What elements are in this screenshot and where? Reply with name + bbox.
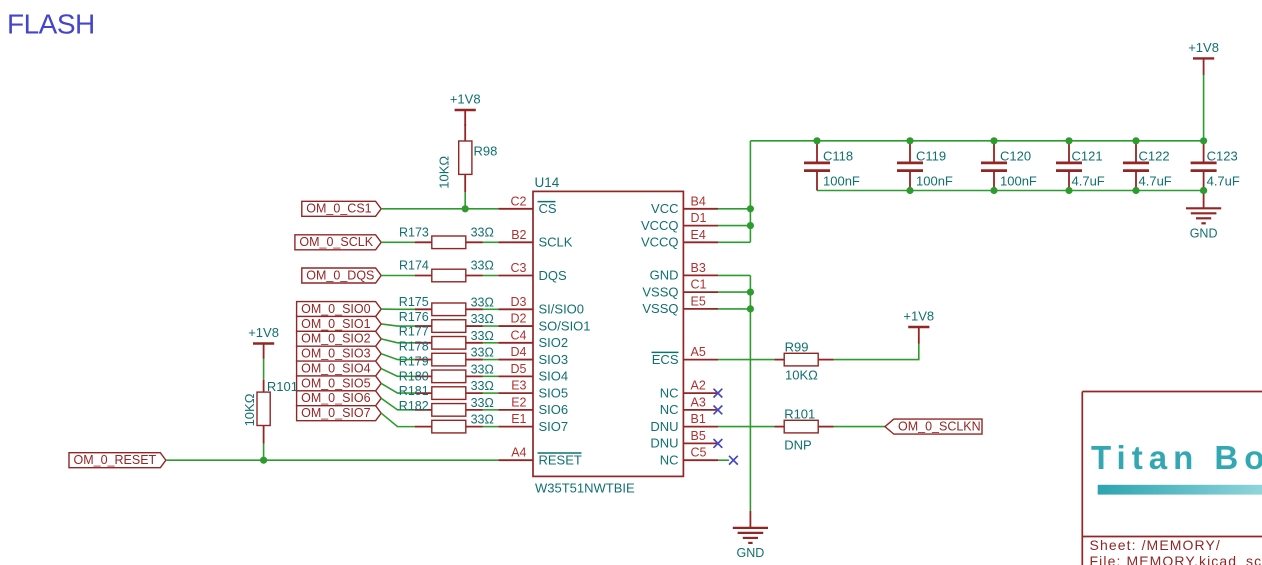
svg-text:OM_0_SIO6: OM_0_SIO6 — [301, 391, 371, 405]
svg-text:33Ω: 33Ω — [471, 396, 494, 410]
junction C118 top — [813, 137, 820, 144]
wire R181 to IC — [483, 409, 499, 411]
svg-text:RESET: RESET — [539, 453, 582, 468]
svg-text:OM_0_SIO0: OM_0_SIO0 — [301, 302, 371, 316]
wire OM_0_SIO3 to R178 — [381, 354, 415, 360]
svg-text:SIO6: SIO6 — [539, 402, 569, 417]
svg-text:C122: C122 — [1139, 148, 1170, 163]
junction VCC B4 — [747, 205, 754, 212]
svg-text:OM_0_SIO3: OM_0_SIO3 — [301, 347, 371, 361]
wire R98 lead to node — [464, 174, 466, 208]
svg-text:GND: GND — [737, 546, 765, 560]
wire GND vertical rail — [749, 275, 751, 511]
svg-text:R101: R101 — [267, 379, 298, 394]
svg-text:R180: R180 — [399, 369, 429, 383]
svg-text:33Ω: 33Ω — [471, 362, 494, 376]
net label OM_0_SIO1 — [297, 316, 382, 331]
capacitor C120 — [981, 141, 1037, 191]
capacitor C121 — [1056, 141, 1105, 191]
resistor R101 pull-up — [242, 379, 298, 444]
power +1V8 (ECS pull-up) — [903, 309, 934, 344]
svg-text:Titan Boards: Titan Boards — [1091, 439, 1262, 476]
svg-text:GND: GND — [650, 268, 679, 283]
wire R174 to IC — [483, 275, 499, 277]
pin D4 SIO3 — [498, 345, 568, 367]
junction C121 bottom — [1065, 187, 1072, 194]
svg-text:4.7uF: 4.7uF — [1072, 173, 1105, 188]
capacitor C118 — [804, 141, 860, 191]
no-connect pin C5 — [729, 456, 738, 465]
junction VCC D1 — [747, 222, 754, 229]
svg-text:C120: C120 — [1000, 148, 1031, 163]
svg-text:VCCQ: VCCQ — [641, 218, 679, 233]
svg-text:SIO2: SIO2 — [539, 335, 569, 350]
svg-text:R179: R179 — [399, 354, 429, 368]
svg-text:+1V8: +1V8 — [1188, 40, 1219, 55]
svg-text:OM_0_SIO5: OM_0_SIO5 — [301, 376, 371, 390]
wire VCCQ E4 to rail — [718, 241, 750, 243]
svg-text:SIO5: SIO5 — [539, 385, 569, 400]
junction C122 bottom — [1132, 187, 1139, 194]
pin A5 /ECS — [652, 345, 719, 367]
no-connect pin A2 — [714, 389, 723, 398]
wire OM_0_RESET to pin A4 — [166, 459, 499, 461]
svg-text:OM_0_SIO7: OM_0_SIO7 — [301, 406, 371, 420]
wire R173 to IC — [483, 241, 499, 243]
pin C2 /CS — [498, 194, 556, 216]
pin A2 NC — [660, 379, 718, 401]
ground GND (bottom) — [733, 511, 768, 560]
wire pin C5 stub — [718, 459, 729, 461]
pin D5 SIO4 — [498, 362, 568, 384]
wire +1V8 down to rail — [1203, 75, 1205, 141]
wire R177 to IC — [483, 342, 499, 344]
svg-text:100nF: 100nF — [823, 173, 860, 188]
pin E3 SIO5 — [498, 379, 568, 401]
svg-text:D1: D1 — [691, 211, 707, 225]
svg-text:33Ω: 33Ω — [471, 346, 494, 360]
wire OM_0_SIO6 to R181 — [381, 398, 415, 410]
svg-text:OM_0_SIO2: OM_0_SIO2 — [301, 332, 371, 346]
wire R101 to label — [834, 426, 885, 428]
svg-text:C4: C4 — [511, 328, 527, 342]
capacitor C119 — [897, 141, 953, 191]
pin C1 VSSQ — [642, 278, 718, 300]
svg-text:SIO4: SIO4 — [539, 369, 569, 384]
pin C3 DQS — [498, 261, 567, 283]
wire VSSQ C1 to rail — [718, 291, 750, 293]
svg-text:B5: B5 — [691, 429, 706, 443]
svg-text:+1V8: +1V8 — [903, 309, 934, 324]
title block — [1082, 392, 1262, 565]
junction C120 top — [990, 137, 997, 144]
pin B3 GND — [650, 261, 718, 283]
wire OM_0_SIO2 to R177 — [381, 339, 415, 343]
svg-text:10KΩ: 10KΩ — [437, 156, 452, 189]
svg-text:+1V8: +1V8 — [248, 325, 279, 340]
wire OM_0_CS1 to pin C2 — [381, 208, 498, 210]
svg-text:33Ω: 33Ω — [471, 226, 494, 240]
wire OM_0_SIO0 to R175 — [381, 308, 415, 310]
svg-text:FLASH: FLASH — [7, 9, 95, 40]
no-connect pin A3 — [714, 406, 723, 415]
svg-text:DNU: DNU — [650, 436, 678, 451]
capacitor C122 — [1123, 141, 1172, 191]
ground GND (decoupling) — [1186, 191, 1221, 241]
svg-text:C3: C3 — [511, 261, 527, 275]
svg-text:R176: R176 — [399, 310, 429, 324]
net label OM_0_SIO4 — [297, 361, 382, 376]
resistor R173 — [399, 226, 494, 249]
junction node RESET/R101 — [260, 457, 267, 464]
junction C120 bottom — [990, 187, 997, 194]
text FLASH sheet title — [7, 9, 95, 40]
svg-text:33Ω: 33Ω — [471, 329, 494, 343]
svg-text:E4: E4 — [691, 228, 706, 242]
svg-text:OM_0_RESET: OM_0_RESET — [74, 453, 157, 467]
net label OM_0_SIO2 — [297, 331, 382, 346]
wire OM_0_SIO4 to R179 — [381, 369, 415, 377]
pin D1 VCCQ — [641, 211, 718, 233]
pin C4 SIO2 — [498, 328, 568, 350]
power +1V8 (R98 pull-up) — [450, 92, 481, 127]
wire R176 to IC — [483, 325, 499, 327]
wire OM_0_DQS to R174 — [381, 275, 415, 277]
svg-text:C2: C2 — [511, 194, 527, 208]
svg-text:4.7uF: 4.7uF — [1207, 173, 1240, 188]
svg-text:CS: CS — [539, 201, 557, 216]
svg-text:SIO3: SIO3 — [539, 352, 569, 367]
svg-text:DNU: DNU — [650, 419, 678, 434]
svg-text:VSSQ: VSSQ — [642, 284, 678, 299]
svg-text:B3: B3 — [691, 261, 706, 275]
resistor R174 — [399, 259, 494, 282]
net label OM_0_SIO6 — [297, 391, 382, 406]
svg-text:R175: R175 — [399, 295, 429, 309]
junction C119 top — [906, 137, 913, 144]
svg-text:W35T51NWTBIE: W35T51NWTBIE — [535, 481, 635, 496]
svg-text:C5: C5 — [691, 446, 707, 460]
resistor R181 — [399, 384, 494, 416]
svg-text:R98: R98 — [474, 144, 498, 159]
power +1V8 (R101 pull-up) — [248, 325, 279, 359]
svg-text:R181: R181 — [399, 384, 429, 398]
junction C123 bottom — [1200, 187, 1207, 194]
svg-text:100nF: 100nF — [1000, 173, 1037, 188]
svg-text:Sheet: /MEMORY/: Sheet: /MEMORY/ — [1090, 537, 1221, 553]
wire ECS A5 to R99 — [718, 359, 774, 361]
svg-text:B1: B1 — [691, 412, 706, 426]
svg-text:SCLK: SCLK — [539, 235, 573, 250]
svg-text:D4: D4 — [511, 345, 527, 359]
net label OM_0_SCLKN — [885, 419, 982, 434]
net label OM_0_CS1 — [302, 201, 381, 216]
svg-text:D3: D3 — [511, 295, 527, 309]
net label OM_0_SIO5 — [297, 376, 382, 391]
junction C119 bottom — [906, 187, 913, 194]
resistor R177 — [399, 325, 494, 349]
svg-text:A5: A5 — [691, 345, 706, 359]
IC U14 W35T51NWTBIE body — [533, 175, 683, 496]
net label OM_0_SIO0 — [297, 302, 382, 317]
pin B5 DNU — [650, 429, 718, 451]
svg-text:ECS: ECS — [652, 352, 679, 367]
power +1V8 (decoupling rail) — [1188, 40, 1219, 75]
pin E2 SIO6 — [498, 395, 568, 417]
resistor R175 — [399, 295, 494, 316]
pin E4 VCCQ — [641, 228, 718, 250]
svg-text:E2: E2 — [511, 395, 526, 409]
wire GND B3 to rail — [718, 274, 750, 276]
wire OM_0_SIO5 to R180 — [381, 383, 415, 393]
resistor R99 — [774, 339, 834, 382]
svg-text:A4: A4 — [511, 446, 526, 460]
svg-text:B2: B2 — [511, 228, 526, 242]
svg-text:R99: R99 — [785, 339, 809, 354]
resistor R179 — [399, 354, 494, 382]
svg-text:SO/SIO1: SO/SIO1 — [539, 318, 591, 333]
svg-text:NC: NC — [660, 453, 679, 468]
svg-text:33Ω: 33Ω — [471, 259, 494, 273]
svg-text:C121: C121 — [1072, 148, 1103, 163]
pin B1 DNU — [650, 412, 718, 434]
svg-text:33Ω: 33Ω — [471, 379, 494, 393]
svg-text:OM_0_CS1: OM_0_CS1 — [306, 202, 371, 216]
svg-text:U14: U14 — [535, 175, 560, 190]
pin E5 VSSQ — [642, 294, 718, 316]
svg-text:NC: NC — [660, 385, 679, 400]
svg-text:+1V8: +1V8 — [450, 92, 481, 107]
junction C123 top — [1200, 137, 1207, 144]
svg-text:D2: D2 — [511, 312, 527, 326]
wire R175 to IC — [483, 308, 499, 310]
wire R182 to IC — [483, 426, 499, 428]
no-connect pin B5 — [714, 439, 723, 448]
svg-text:OM_0_SCLKN: OM_0_SCLKN — [898, 419, 981, 433]
resistor R176 — [399, 310, 494, 333]
pin D3 SI/SIO0 — [498, 295, 584, 317]
svg-text:VCCQ: VCCQ — [641, 235, 679, 250]
svg-text:SIO7: SIO7 — [539, 419, 569, 434]
junction node CS1/R98 — [462, 205, 469, 212]
svg-text:C123: C123 — [1207, 148, 1238, 163]
svg-text:10KΩ: 10KΩ — [242, 393, 257, 426]
svg-text:E5: E5 — [691, 294, 706, 308]
pin B4 VCC — [651, 194, 718, 216]
svg-text:R173: R173 — [399, 226, 429, 240]
wire +1V8 top rail — [750, 140, 1203, 142]
wire +1V8 to R98 — [464, 124, 466, 141]
svg-text:GND: GND — [1190, 227, 1218, 241]
svg-text:DNP: DNP — [784, 437, 811, 452]
svg-text:File: MEMORY.kicad_sch: File: MEMORY.kicad_sch — [1090, 553, 1262, 565]
pin D2 SO/SIO1 — [498, 312, 590, 334]
resistor R178 — [399, 340, 494, 366]
resistor R98 — [437, 141, 498, 189]
wire OM_0_SIO7 to R182 — [381, 413, 415, 426]
wire R101 to RESET net — [263, 444, 265, 461]
svg-text:33Ω: 33Ω — [471, 312, 494, 326]
resistor R182 — [399, 399, 494, 433]
wire VSSQ E5 to rail — [718, 308, 750, 310]
svg-text:A2: A2 — [691, 379, 706, 393]
svg-text:33Ω: 33Ω — [471, 413, 494, 427]
svg-text:D5: D5 — [511, 362, 527, 376]
pin A4 /RESET — [498, 446, 582, 468]
wire VCC B4 to rail — [718, 208, 750, 210]
junction VSSQ E5 — [747, 305, 754, 312]
svg-text:R177: R177 — [399, 325, 429, 339]
svg-text:A3: A3 — [691, 395, 706, 409]
svg-text:DQS: DQS — [539, 268, 568, 283]
junction C123 bottom node — [1200, 187, 1207, 194]
svg-text:OM_0_SCLK: OM_0_SCLK — [299, 235, 373, 249]
wire VCCQ D1 to rail — [718, 225, 750, 227]
pin B2 SCLK — [498, 228, 572, 250]
net label OM_0_DQS — [302, 268, 381, 283]
svg-text:E3: E3 — [511, 379, 526, 393]
wire OM_0_SIO1 to R176 — [381, 324, 415, 326]
resistor R180 — [399, 369, 494, 399]
net label OM_0_SCLK — [295, 235, 381, 250]
pin E1 SIO7 — [498, 412, 568, 434]
svg-text:100nF: 100nF — [916, 173, 953, 188]
pin C5 NC — [660, 446, 718, 468]
svg-text:VSSQ: VSSQ — [642, 301, 678, 316]
svg-text:C119: C119 — [916, 148, 946, 163]
resistor R101 (DNP) — [774, 406, 834, 452]
svg-text:B4: B4 — [691, 194, 706, 208]
svg-text:OM_0_SIO4: OM_0_SIO4 — [301, 361, 371, 375]
svg-text:OM_0_DQS: OM_0_DQS — [306, 268, 374, 282]
wire DNU B1 to R101 — [718, 426, 774, 428]
wire OM_0_SCLK to R173 — [381, 241, 415, 243]
capacitor C123 — [1191, 141, 1240, 191]
junction VSSQ C1 — [747, 289, 754, 296]
svg-text:E1: E1 — [511, 412, 526, 426]
wire R179 to IC — [483, 375, 499, 377]
net label OM_0_SIO3 — [297, 346, 382, 361]
svg-text:NC: NC — [660, 402, 679, 417]
svg-text:4.7uF: 4.7uF — [1139, 173, 1172, 188]
svg-text:R178: R178 — [399, 340, 429, 354]
junction C121 top — [1065, 137, 1072, 144]
svg-text:10KΩ: 10KΩ — [785, 368, 818, 383]
wire R178 to IC — [483, 359, 499, 361]
svg-text:C118: C118 — [823, 148, 853, 163]
svg-text:C1: C1 — [691, 278, 707, 292]
pin A3 NC — [660, 395, 718, 417]
net label OM_0_SIO7 — [297, 406, 382, 421]
wire +1V8 to R101 — [263, 358, 265, 379]
wire R180 to IC — [483, 392, 499, 394]
wire R99 to +1V8 — [834, 343, 919, 360]
svg-text:OM_0_SIO1: OM_0_SIO1 — [301, 317, 371, 331]
svg-text:VCC: VCC — [651, 201, 678, 216]
svg-text:R182: R182 — [399, 399, 429, 413]
wire cap bottom rail — [817, 190, 1204, 192]
svg-text:R101: R101 — [784, 406, 815, 421]
net label OM_0_RESET — [69, 453, 166, 468]
wire VCC vertical rail — [749, 141, 751, 243]
svg-text:33Ω: 33Ω — [471, 295, 494, 309]
svg-text:SI/SIO0: SI/SIO0 — [539, 302, 585, 317]
junction C122 top — [1132, 137, 1139, 144]
svg-text:R174: R174 — [399, 259, 429, 273]
